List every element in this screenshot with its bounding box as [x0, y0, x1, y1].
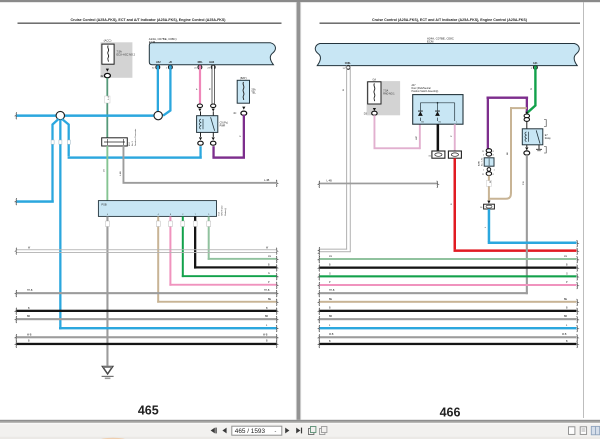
- svg-text:LG: LG: [329, 256, 332, 258]
- relay C9 box: [197, 116, 218, 133]
- bus B bottom: [17, 343, 277, 345]
- right-end hooks for partial wires: [276, 256, 278, 305]
- svg-text:BR: BR: [265, 316, 269, 318]
- junction circle A: [154, 111, 162, 119]
- layout icon continuous: [580, 427, 586, 435]
- nav first-page button: [211, 428, 217, 434]
- wire BE horizontal: [157, 301, 276, 303]
- relay pin2 ground tick: [539, 145, 540, 150]
- shield pair thin lines: [17, 248, 277, 251]
- svg-text:Junction Connector: Junction Connector: [134, 128, 137, 146]
- bus G: [320, 275, 577, 277]
- relay bottom arrow + ellipse: [526, 145, 527, 147]
- svg-text:Cruise Control (A25A-FKS), ECT: Cruise Control (A25A-FKS), ECT and A/T I…: [71, 18, 227, 22]
- orange glow bottom left: [99, 438, 127, 439]
- svg-text:L-4B: L-4B: [327, 179, 333, 182]
- junction circle B: [56, 111, 64, 119]
- cyan middle strand down: [59, 120, 61, 330]
- wire BE tan top horizontal: [510, 107, 527, 109]
- svg-text:LG: LG: [564, 256, 567, 258]
- svg-text:TH-B: TH-B: [264, 290, 270, 292]
- svg-text:LG: LG: [104, 169, 106, 172]
- arrow to E03: [487, 201, 490, 204]
- nav next button: [285, 428, 289, 434]
- ECM connector bar: [149, 43, 275, 65]
- svg-text:G: G: [329, 273, 331, 275]
- svg-text:TEL: TEL: [251, 92, 256, 95]
- svg-text:W-B: W-B: [263, 334, 268, 336]
- bottom arrows and ellipses: [199, 137, 202, 140]
- svg-text:BE: BE: [268, 299, 272, 301]
- svg-text:1: 1: [483, 170, 484, 172]
- connector E03 mid: [484, 204, 495, 209]
- svg-text:A52: A52: [156, 61, 161, 64]
- title underline: [320, 23, 581, 24]
- junction block backdrop (ACC): [101, 42, 133, 78]
- internal wiring: [420, 103, 454, 121]
- svg-text:BR: BR: [329, 316, 333, 318]
- svg-text:1: 1: [494, 170, 495, 172]
- pair turn left to hooks: [320, 248, 348, 251]
- layout icon facing (active): [591, 426, 599, 434]
- junction box A48B: [484, 158, 494, 166]
- svg-text:Relay: Relay: [545, 138, 552, 140]
- fuse ACC: [102, 44, 114, 64]
- wire B from PSB: [194, 216, 196, 268]
- svg-text:465 / 1593: 465 / 1593: [235, 428, 266, 435]
- ECM connector bar: [315, 44, 579, 66]
- bus L cyan: [320, 327, 577, 329]
- relay pin stubs bottom: [200, 132, 201, 137]
- S-hook right end L-4B: [276, 180, 278, 187]
- svg-text:L-4B: L-4B: [264, 179, 270, 182]
- wire BE tan down from stack: [488, 176, 490, 201]
- toolbar body: [0, 423, 600, 439]
- page ref ticks on cyan strands: [51, 140, 54, 144]
- wire R red down: [454, 158, 457, 249]
- svg-text:C08L: C08L: [345, 62, 352, 65]
- bus GY to relay: [320, 292, 528, 294]
- wire P pink from L pin: [454, 124, 456, 151]
- wire B horizontal: [194, 266, 277, 268]
- left strand horizontal to page edge: [17, 200, 54, 203]
- svg-text:W-B: W-B: [562, 334, 567, 336]
- wire BE tan right vertical: [510, 107, 512, 193]
- svg-text:465: 465: [138, 403, 159, 417]
- connector arrow below fuse: [106, 69, 109, 72]
- L-4B gray line: [320, 183, 438, 185]
- page-copy icon 2: [320, 427, 327, 435]
- wire GY L-4B horizontal: [123, 182, 277, 184]
- connector E03 black: [432, 151, 445, 158]
- svg-text:L-4B: L-4B: [120, 171, 122, 176]
- wire LG horizontal: [208, 258, 277, 260]
- svg-text:-: -: [275, 429, 277, 435]
- S-hook left end of trunk: [15, 113, 17, 120]
- svg-text:4C: 4C: [233, 112, 236, 115]
- wire G horizontal: [182, 275, 277, 277]
- junction connector E18: [102, 138, 128, 146]
- wire P pink fuse to diode box: [374, 115, 376, 148]
- wire G green from A21: [527, 66, 536, 114]
- svg-text:W/O Trailer: W/O Trailer: [222, 205, 224, 215]
- connector E03 red: [448, 151, 461, 158]
- svg-text:ECU–ACC NO.2: ECU–ACC NO.2: [117, 54, 136, 57]
- inline connector pair on P: [197, 104, 202, 108]
- svg-text:G: G: [268, 273, 270, 275]
- nav last-page button: [296, 428, 302, 434]
- svg-text:BR: BR: [564, 316, 568, 318]
- bus B: [320, 267, 577, 269]
- inline connector pair on W: [211, 104, 216, 108]
- cyan fan from junction B: left strand: [53, 119, 59, 202]
- wire LG from PSB: [208, 216, 210, 259]
- wire BE tan from PSB: [157, 216, 159, 302]
- wire L cyan horizontal: [488, 242, 577, 245]
- svg-text:TH-B: TH-B: [329, 290, 335, 292]
- bus B: [17, 310, 277, 312]
- wire R red horizontal: [454, 249, 577, 252]
- connector bracket marks: [544, 120, 546, 127]
- wire P purple rise to relay: [212, 146, 214, 157]
- wire P pink from PSB: [169, 216, 171, 285]
- wire P horizontal: [169, 284, 276, 286]
- svg-text:+B: +B: [169, 61, 172, 64]
- wire G from PSB: [182, 216, 184, 277]
- circle + oval below: [487, 168, 491, 172]
- connector pair under green: [525, 112, 528, 114]
- ellipse below fuse: [372, 111, 377, 115]
- wire P purple BAT down: [243, 115, 245, 158]
- svg-text:Cruise Control (A25A-FKS), ECT: Cruise Control (A25A-FKS), ECT and A/T I…: [372, 18, 528, 22]
- bus GY TH-B: [17, 292, 277, 294]
- svg-text:Brake(s): Brake(s): [225, 208, 227, 216]
- wire ref tags on PSB wires: [106, 221, 211, 227]
- wire G (ACC fuse to E18): [106, 78, 108, 138]
- right page edge: [583, 2, 584, 418]
- right hooks: [577, 256, 579, 347]
- bus GY W-B: [320, 336, 577, 338]
- connector ellipse 4E: [104, 73, 110, 77]
- window top edge: [0, 0, 600, 2]
- wire L cyan from pin +B: [163, 65, 170, 115]
- title underline: [18, 23, 282, 24]
- PSB box: [98, 201, 216, 217]
- svg-text:TH-B: TH-B: [27, 290, 33, 292]
- fuse GA: [368, 82, 381, 104]
- cyan horizontal to relay: [68, 156, 202, 158]
- labels at right ends: [268, 256, 272, 301]
- relay pin stubs top: [200, 111, 201, 115]
- cyan rise to relay connector: [199, 146, 201, 157]
- bus GY BR: [320, 318, 577, 320]
- svg-text:LG: LG: [268, 256, 271, 258]
- svg-text:21: 21: [482, 151, 484, 153]
- center page divider: [296, 2, 297, 420]
- bus L cyan: [59, 327, 277, 329]
- bus BE: [320, 301, 577, 303]
- junction block backdrop right: [367, 81, 401, 115]
- svg-text:No. 3 J/C: No. 3 J/C: [482, 157, 484, 166]
- bus LG: [320, 258, 577, 260]
- svg-text:ECM: ECM: [427, 39, 434, 43]
- svg-text:4E: 4E: [100, 75, 103, 78]
- svg-text:A21: A21: [533, 62, 538, 65]
- svg-text:P-B: P-B: [523, 181, 525, 185]
- svg-text:BR: BR: [27, 316, 31, 318]
- tan curve join: [489, 192, 511, 199]
- diode 2: [435, 111, 440, 116]
- wire P purple horizontal: [212, 156, 245, 158]
- wire V purple right stub down: [526, 97, 528, 114]
- diode box A47: [413, 95, 463, 125]
- svg-text:W-B: W-B: [27, 334, 32, 336]
- layout icon single: [569, 427, 575, 435]
- shielded twisted pair from C08L: [345, 66, 348, 250]
- svg-text:PWR: PWR: [220, 125, 226, 128]
- bus GY BR: [17, 318, 277, 320]
- svg-text:G: G: [531, 88, 533, 90]
- wire GY ground from PSB: [106, 216, 108, 365]
- svg-text:BE: BE: [564, 299, 568, 301]
- bus P: [320, 284, 577, 286]
- bus B bottom: [320, 343, 577, 345]
- svg-text:GA: GA: [372, 78, 376, 81]
- svg-text:W-B: W-B: [329, 334, 334, 336]
- wire V purple horizontal top: [487, 97, 529, 99]
- relay E7 box: [522, 129, 543, 145]
- svg-text:ECM: ECM: [149, 40, 156, 44]
- svg-text:PSB: PSB: [101, 203, 106, 207]
- svg-text:G: G: [566, 273, 568, 275]
- svg-text:HH3: HH3: [209, 61, 215, 64]
- left hooks: [318, 256, 320, 347]
- switch symbol: [211, 117, 215, 131]
- cyan trunk horizontal: [17, 114, 159, 117]
- svg-text:A47: A47: [412, 84, 417, 87]
- bus B 2: [320, 310, 577, 312]
- wire LG E18 to PSB: [106, 146, 108, 201]
- wire P from ECM RRL: [199, 65, 201, 104]
- wire W from ECM HH3: [212, 65, 214, 104]
- svg-text:LKP: LKP: [416, 135, 418, 140]
- purple branch connector stack: [486, 149, 491, 153]
- wire L cyan down: [488, 209, 491, 242]
- wire label L-4: [105, 96, 110, 103]
- diode 1: [418, 111, 423, 116]
- svg-text:466: 466: [440, 405, 461, 419]
- svg-text:W: W: [490, 181, 492, 183]
- pin circles: [346, 66, 350, 70]
- svg-text:(BAT): (BAT): [240, 76, 247, 80]
- coil symbol: [199, 119, 201, 129]
- svg-text:BE: BE: [329, 299, 333, 301]
- wire B black from B1: [437, 124, 440, 151]
- wire GY from E18 down: [123, 146, 125, 182]
- svg-text:2: 2: [483, 154, 484, 156]
- svg-text:RAD NO.1: RAD NO.1: [383, 93, 395, 96]
- page field: [232, 426, 282, 435]
- cyan right strand down then right: [62, 119, 69, 156]
- pin circles: [156, 65, 160, 69]
- svg-text:Door (Park/Neutral: Door (Park/Neutral: [412, 87, 432, 90]
- fuse BAT box: [237, 80, 249, 103]
- nav prev button: [222, 428, 226, 434]
- wire GY gray down from relay: [526, 155, 528, 294]
- svg-text:(ACC): (ACC): [104, 38, 112, 42]
- bus GY W-B: [17, 336, 277, 338]
- ellipse below BAT: [241, 111, 247, 115]
- page-copy icon 1: [309, 427, 316, 435]
- arrow below fuse: [373, 108, 376, 111]
- ground symbol: [102, 366, 114, 378]
- svg-text:RRL: RRL: [198, 61, 204, 64]
- wire V purple left vertical: [487, 97, 489, 149]
- svg-text:21: 21: [482, 174, 484, 176]
- page bottom shadow: [0, 420, 600, 422]
- arrow below BAT: [242, 107, 245, 110]
- wire L cyan from pin A52: [157, 65, 159, 112]
- svg-text:Position Switch Assembly): Position Switch Assembly): [412, 90, 439, 93]
- svg-text:A48B: A48B: [478, 160, 481, 166]
